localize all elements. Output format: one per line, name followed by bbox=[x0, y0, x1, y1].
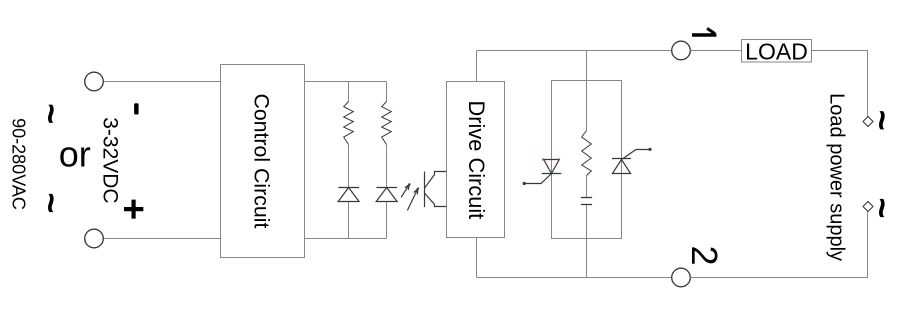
phototransistor Q1 of optocoupler bbox=[425, 172, 447, 208]
svg-text:3-32VDC: 3-32VDC bbox=[98, 117, 121, 203]
SCR Q3 right thyristor bbox=[612, 148, 652, 174]
wire top rail right of control box bbox=[305, 81, 387, 83]
wire branch1 vertical middle bbox=[348, 145, 350, 188]
wire main line between resistor and capacitor bbox=[586, 176, 588, 198]
wire drive box bottom stub bbox=[476, 238, 478, 278]
wire right side down from diamond to bottom corner bbox=[690, 212, 867, 278]
wire terminal1 to LOAD bbox=[690, 50, 741, 52]
supply connector diamond top bbox=[863, 117, 873, 127]
wire main line upper segment bbox=[586, 51, 588, 131]
LED D2 of optocoupler bbox=[376, 188, 397, 202]
wire branch1 vertical upper bbox=[348, 82, 350, 102]
input terminal top circle bbox=[85, 72, 104, 91]
LED light arrow 2 bbox=[407, 188, 419, 211]
label 1 bbox=[692, 28, 716, 35]
resistor R3 snubber bbox=[582, 131, 592, 176]
red dot right on SCR Q2 bbox=[558, 159, 560, 161]
LED light arrow 1 bbox=[401, 183, 410, 197]
svg-text:~: ~ bbox=[862, 110, 900, 131]
wire bottom rail right of control box bbox=[305, 238, 387, 240]
diode D1 bbox=[338, 188, 359, 202]
wire drive box top stub bbox=[476, 51, 478, 82]
svg-text:LOAD: LOAD bbox=[745, 38, 808, 64]
wire branch2 vertical lower bbox=[386, 202, 388, 239]
wire branch2 vertical upper bbox=[386, 82, 388, 102]
output terminal 1 circle bbox=[672, 41, 691, 60]
resistor R1 bbox=[344, 102, 354, 145]
snubber network outline box bbox=[552, 81, 622, 239]
wire bottom output rail bbox=[477, 277, 672, 279]
svg-text:Control Circuit: Control Circuit bbox=[249, 93, 273, 228]
minus polarity mark bbox=[134, 103, 139, 114]
wire top output rail bbox=[477, 50, 672, 52]
svg-text:90-280VAC: 90-280VAC bbox=[9, 118, 29, 210]
supply connector diamond bottom bbox=[863, 202, 873, 212]
svg-text:~: ~ bbox=[31, 103, 72, 124]
wire top-left from terminal to control box bbox=[103, 81, 220, 83]
capacitor C1 snubber bbox=[581, 198, 592, 205]
wire main line lower segment bbox=[586, 205, 588, 278]
output terminal 2 circle bbox=[672, 268, 691, 287]
control circuit box U1 bbox=[221, 65, 305, 258]
wire branch1 vertical lower bbox=[348, 202, 350, 239]
svg-text:Drive Circuit: Drive Circuit bbox=[464, 101, 489, 220]
LOAD box bbox=[742, 40, 812, 63]
SCR Q2 left thyristor bbox=[523, 160, 562, 186]
wire bottom-left from terminal to control box bbox=[103, 238, 220, 240]
svg-text:2: 2 bbox=[684, 245, 725, 265]
wire LOAD to right corner bbox=[812, 51, 868, 117]
input terminal bottom circle bbox=[85, 229, 104, 248]
red dot left on SCR Q2 bbox=[542, 159, 544, 161]
svg-text:+: + bbox=[112, 198, 154, 220]
svg-text:Load power supply: Load power supply bbox=[826, 93, 848, 261]
resistor R2 bbox=[382, 102, 392, 145]
drive circuit box U2 bbox=[447, 82, 505, 238]
svg-text:or: or bbox=[59, 133, 91, 174]
svg-text:~: ~ bbox=[31, 192, 72, 213]
wire branch2 vertical middle bbox=[386, 145, 388, 188]
